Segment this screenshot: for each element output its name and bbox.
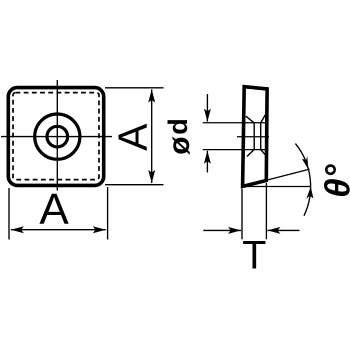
svg-text:d: d [163,118,193,135]
svg-text:ø: ø [163,136,196,155]
svg-text:A: A [39,185,69,234]
svg-text:θ°: θ° [319,163,350,198]
svg-text:T: T [242,233,266,277]
svg-text:A: A [110,123,156,151]
